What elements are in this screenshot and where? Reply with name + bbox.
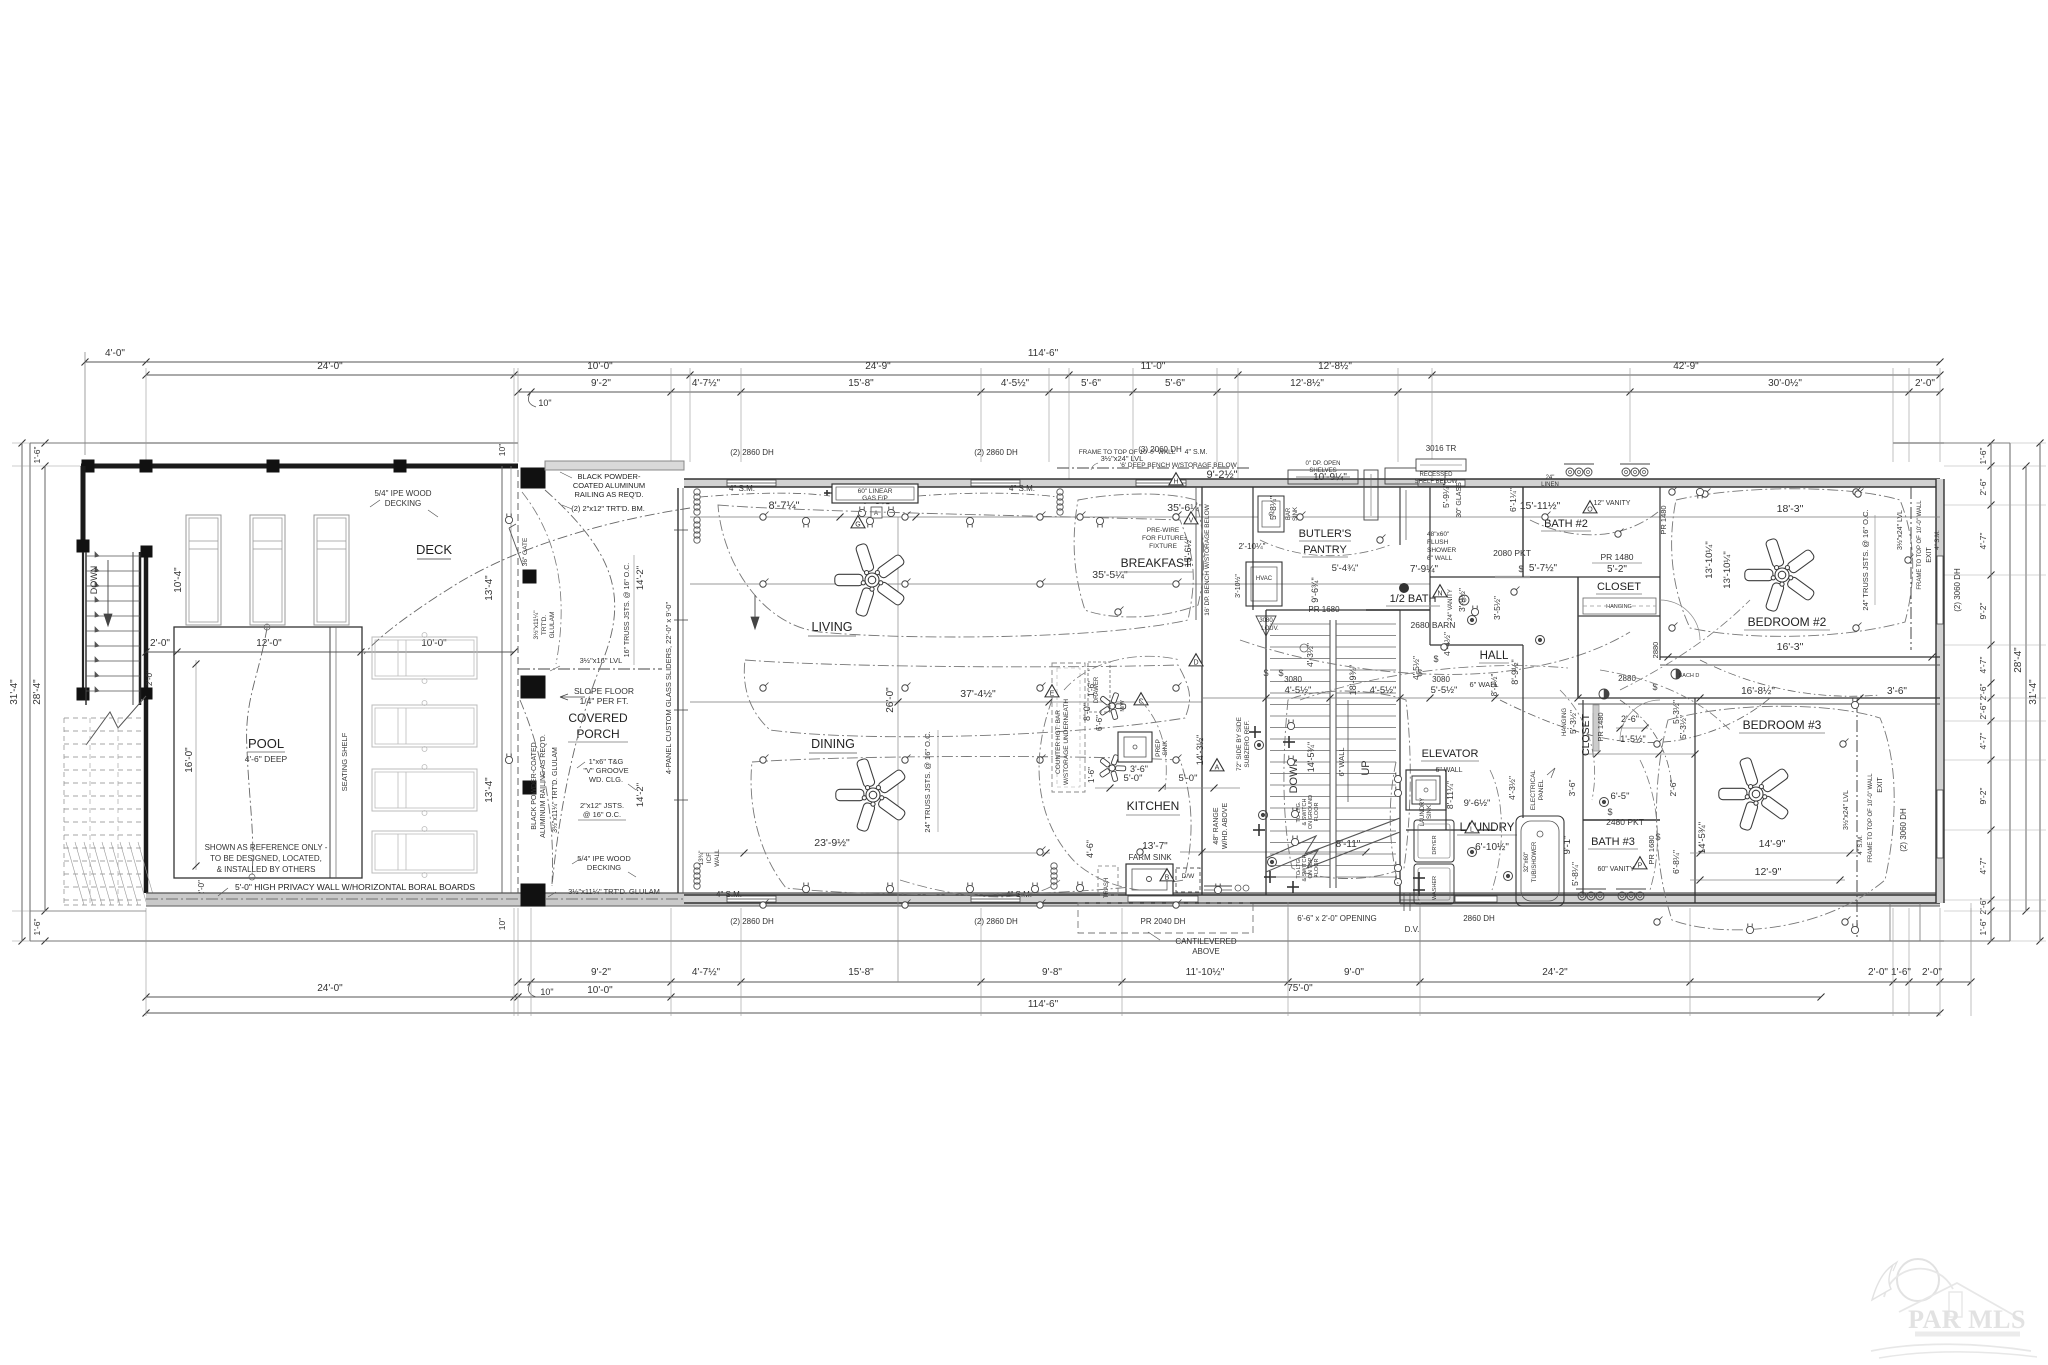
- svg-text:$: $: [1263, 668, 1268, 678]
- svg-text:$: $: [1278, 668, 1283, 678]
- svg-text:BLACK POWDER-COATED: BLACK POWDER-COATED: [531, 742, 538, 829]
- trash dashed box: [1098, 866, 1118, 895]
- svg-text:10'-0": 10'-0": [587, 361, 613, 372]
- svg-text:(2) 2860 DH: (2) 2860 DH: [730, 448, 774, 457]
- svg-text:4" S.M.: 4" S.M.: [729, 484, 755, 493]
- farm sink: [1126, 864, 1173, 895]
- svg-text:9'-6½": 9'-6½": [1464, 798, 1491, 809]
- pool outline: [174, 627, 362, 878]
- window bottom 2860 pair B: [971, 896, 1020, 902]
- deck right rail line: [501, 466, 503, 893]
- svg-text:24" VANITY: 24" VANITY: [1448, 589, 1454, 621]
- svg-text:CLOSET: CLOSET: [1597, 581, 1641, 593]
- deck left wall mid: [82, 552, 84, 700]
- svg-text:10'-4": 10'-4": [173, 567, 184, 593]
- dining wiring loop: [751, 756, 1191, 894]
- svg-text:24'-9": 24'-9": [865, 361, 891, 372]
- svg-text:8'-11": 8'-11": [1336, 839, 1361, 850]
- half bath toilet: [1400, 584, 1409, 593]
- svg-text:PANEL: PANEL: [1538, 779, 1545, 800]
- svg-text:TRASH: TRASH: [1104, 878, 1110, 898]
- svg-text:"V" GROOVE: "V" GROOVE: [583, 766, 628, 775]
- svg-text:14'-2": 14'-2": [635, 566, 646, 590]
- svg-text:2'-10¼": 2'-10¼": [1238, 542, 1265, 551]
- svg-text:4" S.M.: 4" S.M.: [1009, 484, 1035, 493]
- svg-text:9'-2": 9'-2": [591, 967, 611, 978]
- svg-text:4'-7": 4'-7": [1978, 733, 1988, 750]
- svg-text:3016 TR: 3016 TR: [1426, 444, 1457, 453]
- outer boundary line right: [2009, 443, 2011, 941]
- svg-text:2'-0": 2'-0": [145, 670, 154, 686]
- kitchen mw fan lower: [1099, 754, 1125, 782]
- svg-text:10'-0": 10'-0": [587, 985, 613, 996]
- left extension lines: [12, 442, 100, 444]
- svg-text:6" WALL: 6" WALL: [1435, 767, 1462, 774]
- vertical reference x1288: [1287, 902, 1289, 982]
- svg-text:8'-0": 8'-0": [1082, 703, 1092, 721]
- exterior stair right rail: [139, 552, 142, 705]
- left lower boundary line: [30, 910, 146, 912]
- svg-text:BEDROOM #3: BEDROOM #3: [1743, 718, 1822, 732]
- svg-text:15'-8": 15'-8": [848, 378, 874, 389]
- svg-text:RECESSED: RECESSED: [1419, 472, 1453, 478]
- living wiring loop lower: [744, 660, 1189, 737]
- svg-text:24'-2": 24'-2": [1542, 967, 1568, 978]
- kitchen island dashed: [1052, 663, 1085, 792]
- kitchen small outlets bottom: [1076, 882, 1083, 892]
- svg-text:6'-6" x 2'-0" OPENING: 6'-6" x 2'-0" OPENING: [1297, 914, 1376, 923]
- coil bottom kitchen: [1051, 863, 1057, 889]
- elevator cab: [1412, 776, 1440, 804]
- outer boundary line top-right: [1893, 442, 2010, 444]
- svg-text:1'-6": 1'-6": [1087, 681, 1096, 697]
- laundry wiring loop: [1390, 762, 1398, 884]
- svg-text:24" TRUSS JSTS. @ 16" O.C.: 24" TRUSS JSTS. @ 16" O.C.: [1861, 509, 1870, 610]
- svg-text:W/STORAGE UNDERNEATH: W/STORAGE UNDERNEATH: [1063, 699, 1070, 785]
- svg-text:HALL: HALL: [1480, 650, 1509, 662]
- svg-text:TO BE DESIGNED, LOCATED,: TO BE DESIGNED, LOCATED,: [210, 854, 322, 863]
- stair center rail: [1329, 620, 1331, 888]
- svg-text:10'-9¼": 10'-9¼": [1313, 471, 1347, 483]
- svg-text:1/2 BATH: 1/2 BATH: [1390, 593, 1437, 605]
- svg-text:(2) 2860 DH: (2) 2860 DH: [974, 448, 1018, 457]
- svg-text:2080 PKT: 2080 PKT: [1493, 548, 1531, 558]
- dim left 28'-4": [44, 466, 46, 911]
- svg-text:114'-6": 114'-6": [1028, 348, 1059, 359]
- closet3 pocket door gray: [1593, 705, 1599, 751]
- svg-text:48"x60": 48"x60": [1427, 531, 1450, 538]
- pool lounge chair 4: [372, 831, 477, 873]
- bedroom2 lvl dashdot: [1910, 487, 1912, 650]
- svg-text:4'-3½": 4'-3½": [1305, 643, 1315, 667]
- svg-text:24": 24": [1546, 475, 1555, 481]
- porch boundary dashed line: [517, 470, 519, 893]
- svg-text:PR 1480: PR 1480: [1596, 712, 1605, 741]
- svg-text:O: O: [1587, 506, 1593, 513]
- bottom extension lines: [145, 908, 147, 1016]
- dining junction circles: [760, 757, 766, 763]
- hall canlights: [1468, 616, 1477, 625]
- exterior stair left rail: [85, 552, 87, 705]
- svg-text:28'-4": 28'-4": [32, 679, 43, 705]
- svg-text:12'-9": 12'-9": [1755, 866, 1782, 878]
- svg-text:10": 10": [538, 398, 551, 408]
- triangle marker H: [1169, 473, 1183, 485]
- stair double outlets: [1287, 720, 1294, 730]
- bedroom3 junctions: [1654, 741, 1660, 747]
- svg-text:12" VANITY: 12" VANITY: [1594, 500, 1631, 507]
- house right wall: [1936, 479, 1944, 903]
- svg-text:DINING: DINING: [811, 737, 855, 751]
- svg-text:23'-9½": 23'-9½": [814, 837, 850, 849]
- svg-text:P: P: [1638, 862, 1643, 869]
- triangle marker D: [1189, 654, 1203, 666]
- svg-text:5'-6": 5'-6": [1165, 378, 1185, 389]
- svg-text:W/HD. ABOVE: W/HD. ABOVE: [1222, 803, 1229, 850]
- svg-text:BLACK POWDER-: BLACK POWDER-: [578, 472, 641, 481]
- drawer note: [1088, 662, 1110, 712]
- pantry junctions: [1297, 514, 1303, 520]
- svg-text:5'-3½": 5'-3½": [1678, 715, 1688, 739]
- half bath sink: [1459, 595, 1469, 605]
- logo bird: [1872, 1265, 1893, 1300]
- svg-text:PORCH: PORCH: [576, 727, 619, 741]
- svg-text:9'-0": 9'-0": [1344, 967, 1364, 978]
- bath3 tub: [1516, 816, 1564, 906]
- svg-text:10": 10": [497, 918, 507, 930]
- svg-text:ALUMINUM RAILING AS REQ'D.: ALUMINUM RAILING AS REQ'D.: [540, 734, 547, 838]
- porch wiring arc 1: [545, 490, 615, 886]
- outlets bottom wall living: [802, 883, 809, 893]
- dishwasher box: [1176, 868, 1200, 892]
- svg-text:8'-9½": 8'-9½": [1490, 674, 1499, 697]
- interior stair treads: [1270, 623, 1330, 625]
- svg-text:5/4" IPE WOOD: 5/4" IPE WOOD: [374, 489, 431, 498]
- stair crosses: [1283, 741, 1295, 743]
- pool lounge chair 2: [372, 705, 477, 747]
- svg-text:WASHER: WASHER: [1432, 876, 1438, 900]
- svg-text:35'-5¼": 35'-5¼": [1092, 569, 1128, 581]
- triangle marker E: [1045, 685, 1059, 697]
- svg-text:DECK: DECK: [416, 542, 452, 557]
- svg-text:D/W: D/W: [1182, 873, 1196, 880]
- kitchen interior wall x1202: [1201, 487, 1203, 895]
- dim right 31'-4": [2039, 443, 2041, 941]
- svg-text:N: N: [1437, 590, 1442, 597]
- dim row2 bottom: [146, 996, 1821, 998]
- bedroom3 lvl dashdot: [1856, 700, 1858, 940]
- svg-text:(2) 2"x12" TRT'D. BM.: (2) 2"x12" TRT'D. BM.: [571, 504, 645, 513]
- dim left 1'-6" bottom: [42, 938, 49, 945]
- svg-text:5/4" IPE WOOD: 5/4" IPE WOOD: [577, 854, 631, 863]
- vanity triangle: [1583, 501, 1597, 513]
- stairwell wiring loop: [1284, 691, 1410, 879]
- svg-text:CANTILEVERED: CANTILEVERED: [1175, 937, 1237, 946]
- svg-text:FRAME TO TOP OF 10'-0" WALL: FRAME TO TOP OF 10'-0" WALL: [1079, 449, 1176, 456]
- svg-text:2880: 2880: [1651, 642, 1660, 659]
- triangle marker P: [1633, 857, 1647, 869]
- svg-text:14'-3½": 14'-3½": [1195, 735, 1205, 765]
- svg-text:4'-5½": 4'-5½": [1411, 656, 1421, 680]
- svg-text:8'-11¼": 8'-11¼": [1445, 781, 1455, 809]
- svg-text:16'-3": 16'-3": [1777, 641, 1804, 653]
- svg-text:LINEN: LINEN: [1541, 482, 1559, 488]
- svg-text:2'-0": 2'-0": [150, 638, 170, 649]
- svg-text:FRAME TO TOP OF 10'-0" WALL: FRAME TO TOP OF 10'-0" WALL: [1917, 500, 1923, 590]
- svg-text:4'-5½": 4'-5½": [1370, 685, 1397, 696]
- bath3 faucets B: [1618, 892, 1626, 900]
- svg-text:4'-5½": 4'-5½": [1285, 685, 1312, 696]
- svg-text:31'-4": 31'-4": [9, 679, 20, 705]
- dryer box: [1414, 820, 1454, 862]
- svg-text:SHOWN AS REFERENCE ONLY -: SHOWN AS REFERENCE ONLY -: [205, 843, 328, 852]
- svg-text:5'-0": 5'-0": [1179, 773, 1198, 784]
- kitchen dim 5-0 5-0: [1095, 787, 1240, 789]
- bedroom3 wiring loop: [1656, 706, 1894, 930]
- svg-text:$: $: [1655, 832, 1660, 842]
- reference line y517: [690, 516, 1940, 518]
- window top 2060 triple: [1136, 480, 1186, 486]
- svg-text:10": 10": [497, 444, 507, 456]
- svg-text:2'-0": 2'-0": [1922, 967, 1942, 978]
- dryer vent symbol: [1400, 899, 1420, 901]
- svg-text:6'-8¼": 6'-8¼": [1671, 850, 1681, 874]
- svg-text:9'-2": 9'-2": [591, 378, 611, 389]
- svg-text:3'-5½": 3'-5½": [1492, 596, 1502, 620]
- window top 2860 pair B: [971, 480, 1020, 486]
- svg-text:3½"x16" LVL: 3½"x16" LVL: [580, 656, 623, 665]
- lvl dashdot lintel line: [1057, 467, 1250, 469]
- right extension lines: [1944, 442, 2046, 444]
- svg-text:(2) 2860 DH: (2) 2860 DH: [730, 917, 774, 926]
- svg-text:15'-11½": 15'-11½": [1520, 500, 1561, 512]
- bath2 wiring arc: [1530, 512, 1658, 535]
- svg-text:LAUNDRY: LAUNDRY: [1420, 798, 1426, 827]
- svg-text:14'-9": 14'-9": [1759, 838, 1786, 850]
- svg-text:9'-8": 9'-8": [1042, 967, 1062, 978]
- svg-text:6'-10½": 6'-10½": [1475, 842, 1509, 853]
- svg-text:4'-7": 4'-7": [1978, 533, 1988, 550]
- bedroom2 top right junction: [1905, 557, 1911, 563]
- deck left wall post B: [77, 688, 89, 700]
- pool seating shelf divider: [329, 627, 331, 878]
- svg-text:DECKING: DECKING: [587, 863, 621, 872]
- svg-text:SUBZERO REF.: SUBZERO REF.: [1244, 720, 1251, 768]
- svg-text:2880: 2880: [1618, 674, 1636, 683]
- kitchen bench wall line: [1195, 487, 1197, 620]
- svg-text:@ 16" O.C.: @ 16" O.C.: [583, 810, 621, 819]
- house top wall: [684, 479, 1940, 487]
- svg-text:2'-0": 2'-0": [1915, 378, 1935, 389]
- porch post middle: [521, 676, 545, 698]
- svg-text:PAR MLS: PAR MLS: [1908, 1305, 2026, 1334]
- svg-text:12'-8½": 12'-8½": [1290, 378, 1324, 389]
- hall wall y645: [1430, 644, 1523, 646]
- svg-text:4'-7": 4'-7": [1978, 858, 1988, 875]
- svg-text:3'-9½": 3'-9½": [1457, 588, 1467, 612]
- svg-text:3½"x11¼" TRT'D. GLULAM: 3½"x11¼" TRT'D. GLULAM: [551, 747, 559, 833]
- svg-text:13'-4": 13'-4": [484, 777, 495, 803]
- svg-text:13'-10¼": 13'-10¼": [1722, 551, 1733, 588]
- svg-text:5'-0" HIGH PRIVACY WALL W/HORI: 5'-0" HIGH PRIVACY WALL W/HORIZONTAL BOR…: [235, 882, 475, 892]
- svg-text:SINK: SINK: [1427, 805, 1433, 819]
- svg-text:5'-6": 5'-6": [1081, 378, 1101, 389]
- svg-text:3½"x24" LVL: 3½"x24" LVL: [1842, 790, 1850, 830]
- svg-text:75'-0": 75'-0": [1287, 983, 1313, 994]
- svg-text:2'-6": 2'-6": [1978, 479, 1988, 496]
- bar sink: [1258, 496, 1284, 532]
- svg-text:9'-1": 9'-1": [1562, 836, 1573, 855]
- hvac chase box: [1246, 562, 1282, 606]
- svg-text:A: A: [1215, 764, 1220, 771]
- half bath walls: [1366, 609, 1430, 611]
- svg-text:30" GLASS: 30" GLASS: [1456, 482, 1463, 518]
- svg-text:5'-4¾": 5'-4¾": [1332, 563, 1359, 574]
- bath2 vanity faucets A: [1566, 468, 1574, 476]
- svg-text:G: G: [855, 521, 860, 528]
- dim row2 top: [146, 374, 1940, 376]
- window top 2860 pair A: [727, 480, 776, 486]
- svg-text:5'-3½": 5'-3½": [1568, 710, 1578, 734]
- window right 3060 bedroom2: [1937, 556, 1943, 624]
- gas fireplace box: [832, 484, 918, 503]
- svg-text:3'-6": 3'-6": [1887, 686, 1907, 697]
- deck left wall upper: [81, 466, 86, 552]
- exterior stair lower hatch: [66, 842, 84, 905]
- svg-text:24" TRUSS JSTS. @ 16" O.C.: 24" TRUSS JSTS. @ 16" O.C.: [923, 731, 932, 832]
- dim row3 top: [518, 391, 1940, 393]
- laundry crosses: [1413, 889, 1425, 891]
- prep sink: [1118, 732, 1152, 762]
- dim left 31'-4": [21, 443, 23, 941]
- triangle marker V breakfast: [1184, 512, 1198, 524]
- svg-text:1'-6": 1'-6": [32, 447, 42, 464]
- svg-text:4'-6" DEEP: 4'-6" DEEP: [245, 754, 288, 764]
- svg-text:12'-8½": 12'-8½": [1318, 361, 1352, 372]
- svg-text:PR 1480: PR 1480: [1600, 552, 1633, 562]
- svg-text:3½"x11¼": 3½"x11¼": [532, 610, 540, 640]
- porch slider panel ticks: [674, 529, 688, 531]
- bedroom3 fan: [1719, 757, 1790, 831]
- hall to bedroom2 wiring arc: [1500, 698, 1770, 743]
- svg-text:1'-6": 1'-6": [32, 919, 42, 936]
- dim row1 bottom: [518, 981, 1971, 983]
- svg-text:9'-2½": 9'-2½": [1206, 469, 1237, 481]
- svg-text:2860 DH: 2860 DH: [1463, 914, 1495, 923]
- deck top wall posts: [82, 460, 94, 472]
- pool dim line: [146, 651, 514, 653]
- privacy wall band: [146, 893, 1940, 906]
- svg-text:7'-9¼": 7'-9¼": [1410, 563, 1439, 575]
- svg-text:TRT'D.: TRT'D.: [541, 615, 548, 635]
- fireplace sconces: [858, 507, 865, 517]
- svg-text:4'-5½": 4'-5½": [1001, 378, 1030, 389]
- svg-text:13'-10¼": 13'-10¼": [1704, 541, 1715, 578]
- svg-text:BATH #3: BATH #3: [1591, 836, 1635, 848]
- bath3 faucets A: [1578, 892, 1586, 900]
- svg-text:1'-6": 1'-6": [1891, 967, 1911, 978]
- svg-text:42'-9": 42'-9": [1673, 361, 1699, 372]
- outer boundary line top-left: [30, 442, 518, 444]
- wall x1430 vertical: [1429, 487, 1431, 645]
- logo cloud arc: [1884, 1269, 1953, 1297]
- privacy wall dashdot line: [146, 898, 700, 900]
- svg-text:FIXTURE: FIXTURE: [1149, 543, 1177, 550]
- porch sconce symbols: [505, 514, 512, 524]
- stair break line: [1266, 818, 1400, 858]
- hall wiring arcs: [1240, 632, 1630, 674]
- svg-text:BREAKFAST: BREAKFAST: [1121, 556, 1192, 570]
- bedroom2 wiring loop: [1672, 489, 1913, 637]
- living junction circles y584: [760, 581, 766, 587]
- svg-text:FLOOR: FLOOR: [1314, 859, 1320, 878]
- svg-text:D: D: [1193, 659, 1198, 666]
- closet hanging box: [1583, 598, 1656, 614]
- bath2 left wall: [1522, 487, 1524, 577]
- svg-text:5'-7½": 5'-7½": [1529, 563, 1558, 574]
- svg-text:TUB/SHOWER: TUB/SHOWER: [1532, 841, 1538, 882]
- hall-bedroom wiring diagonal: [1600, 670, 1730, 730]
- svg-text:14'-5¾": 14'-5¾": [1697, 822, 1708, 854]
- window bottom PR 2040: [1128, 896, 1198, 902]
- svg-text:3'-6": 3'-6": [1567, 780, 1577, 797]
- bedroom2 junctions: [1669, 489, 1675, 495]
- deck top wall: [81, 464, 518, 469]
- svg-text:5'-5½": 5'-5½": [1431, 685, 1458, 696]
- deck lounge chair 3: [314, 515, 349, 625]
- living wiring loop upper: [718, 505, 1193, 637]
- house bottom wall: [684, 895, 1940, 903]
- logo house post: [1949, 1292, 1962, 1317]
- svg-text:B: B: [1165, 874, 1170, 881]
- stair arrow: [1347, 700, 1349, 802]
- svg-text:14'-2": 14'-2": [635, 783, 646, 807]
- svg-text:V: V: [1189, 517, 1194, 524]
- svg-text:3'-10½": 3'-10½": [1234, 574, 1242, 598]
- dining ceiling fan: [836, 758, 907, 832]
- deck lounge chair 1: [186, 515, 221, 625]
- svg-text:18'-3": 18'-3": [1777, 503, 1804, 515]
- svg-text:E: E: [1050, 690, 1055, 697]
- exterior stair treads: [86, 555, 140, 557]
- svg-text:4'-3½": 4'-3½": [1507, 776, 1517, 800]
- pool center dashdot curve: [247, 628, 267, 876]
- wiring arc closet area: [1620, 700, 1672, 790]
- svg-text:C: C: [1138, 698, 1143, 705]
- laundry canlight: [1468, 848, 1477, 857]
- svg-text:5'-8¼": 5'-8¼": [1268, 496, 1278, 520]
- svg-text:9'-2": 9'-2": [1978, 603, 1988, 620]
- cantilever dashed outline: [1078, 903, 1253, 933]
- svg-text:24'-0": 24'-0": [317, 983, 343, 994]
- svg-text:2"x12" JSTS.: 2"x12" JSTS.: [580, 801, 624, 810]
- deck wiring dashdot arc: [364, 508, 690, 654]
- svg-text:4'-6": 4'-6": [1085, 840, 1095, 858]
- svg-text:(2) 2860 DH: (2) 2860 DH: [974, 917, 1018, 926]
- window right 3060 bedroom3 region: [1937, 790, 1943, 858]
- svg-text:BUTLER'S: BUTLER'S: [1299, 528, 1352, 540]
- kitchen window coil top: [1057, 489, 1063, 515]
- svg-text:COATED ALUMINUM: COATED ALUMINUM: [573, 481, 645, 490]
- window top 3016 TR: [1418, 480, 1465, 486]
- svg-text:6" WALL: 6" WALL: [1427, 555, 1453, 562]
- svg-text:ELEVATOR: ELEVATOR: [1422, 748, 1479, 760]
- svg-text:5'-2": 5'-2": [1607, 564, 1627, 575]
- svg-text:HANGING: HANGING: [1606, 604, 1632, 610]
- svg-text:FLUSH: FLUSH: [1427, 539, 1449, 546]
- triangle marker C: [1134, 693, 1148, 705]
- kitchen mw fan upper: [1099, 692, 1125, 720]
